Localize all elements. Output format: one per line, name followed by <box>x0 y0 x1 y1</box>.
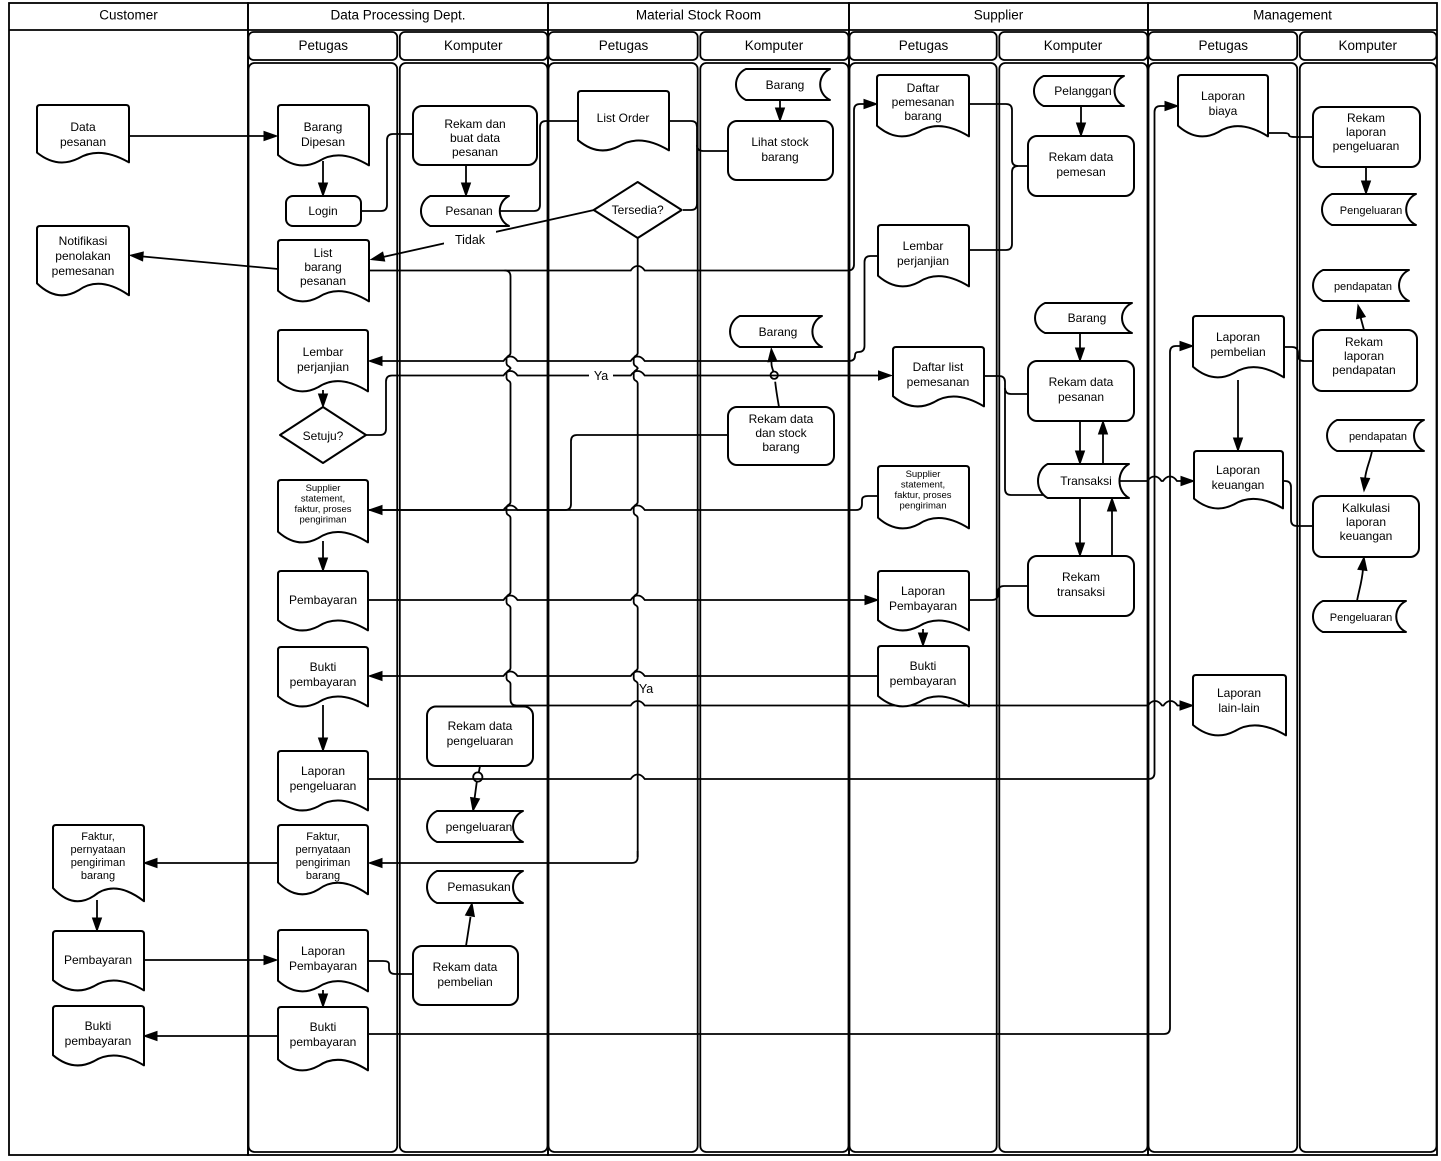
svg-text:Pembayaran: Pembayaran <box>64 953 132 967</box>
wire Data pesanan to Barang Dipesan <box>129 135 264 137</box>
document Notifikasi penolakan pemesanan <box>37 226 129 295</box>
wire Laporan pembelian to Laporan keuangan <box>1237 380 1239 439</box>
wire Supplier statement DP to Pembayaran <box>322 541 324 559</box>
wire Barang S to Rekam data pesanan <box>1079 333 1081 349</box>
svg-text:Rekam datapemesan: Rekam datapemesan <box>1049 150 1114 179</box>
document Pembayaran Customer <box>53 931 144 990</box>
document Pembayaran DP <box>278 571 368 630</box>
arrowhead into Kalkulasi top <box>1361 478 1370 491</box>
svg-text:Lembarperjanjian: Lembarperjanjian <box>297 345 349 374</box>
wire Pembayaran Customer to Laporan Pembayaran DP <box>144 959 264 961</box>
svg-text:Customer: Customer <box>99 8 158 23</box>
decision Tersedia? <box>594 182 682 238</box>
document Laporan keuangan <box>1194 451 1283 508</box>
lane Customer outer box <box>9 3 248 1155</box>
svg-text:Lembarperjanjian: Lembarperjanjian <box>897 239 949 268</box>
svg-text:Rekam datapesanan: Rekam datapesanan <box>1049 375 1114 404</box>
stored-data pendapatan1 <box>1313 270 1409 301</box>
document Faktur pernyataan pengiriman barang Customer <box>53 825 144 901</box>
arrowhead into Rekam data pemesan <box>1077 123 1086 136</box>
arrowhead into Bukti Customer <box>144 1032 157 1041</box>
document List barang pesanan <box>278 240 369 301</box>
document Lembar perjanjian DP <box>278 330 368 391</box>
document Laporan Pembayaran DP <box>278 930 368 991</box>
svg-text:Pengeluaran: Pengeluaran <box>1340 205 1402 217</box>
process Login <box>286 196 361 226</box>
svg-text:Rekam datapengeluaran: Rekam datapengeluaran <box>447 719 514 748</box>
document List Order <box>578 91 669 150</box>
document Laporan pembelian <box>1193 316 1284 377</box>
svg-text:Pemasukan: Pemasukan <box>447 880 510 894</box>
label Ya (Setuju wire) <box>589 367 613 383</box>
svg-text:Transaksi: Transaksi <box>1060 474 1112 488</box>
document Supplier statement faktur proses pengiriman DP <box>278 480 368 542</box>
stored-data Pengeluaran1 <box>1322 194 1416 225</box>
svg-text:Tersedia?: Tersedia? <box>612 203 664 217</box>
wire Rekam data pesanan to Transaksi <box>1079 421 1081 452</box>
wire Lembar perjanjian S to Rekam data pemesan <box>969 166 1018 250</box>
sublane Material Stock Room/Petugas body box <box>549 63 698 1152</box>
svg-text:Rekam danbuat datapesanan: Rekam danbuat datapesanan <box>444 117 505 159</box>
wire Laporan Pembayaran DP to Bukti <box>322 990 324 996</box>
svg-text:pengeluaran: pengeluaran <box>446 820 513 834</box>
sublane Material Stock Room/Petugas header box <box>549 32 698 60</box>
process Rekam transaksi <box>1028 556 1134 616</box>
wire Laporan pembelian to Rekam laporan pendapatan <box>1284 347 1313 361</box>
sublane Supplier/Komputer header box <box>999 32 1147 60</box>
svg-text:Petugas: Petugas <box>1198 38 1248 53</box>
stored-data Barang MSR top <box>736 69 830 100</box>
stored-data Pesanan <box>421 196 509 226</box>
process Rekam data pesanan <box>1028 361 1134 421</box>
arrowhead into Laporan lain-lain <box>1180 701 1193 710</box>
arrowhead into Daftar pemesanan barang <box>864 100 877 109</box>
process Rekam data pembelian <box>413 946 518 1005</box>
sublane Supplier/Petugas body box <box>850 63 997 1152</box>
lane Data Processing Dept. outer box <box>248 3 548 1155</box>
wire Setuju Ya <box>366 371 879 435</box>
svg-text:Pengeluaran: Pengeluaran <box>1330 612 1392 624</box>
wire Rekam data dan stock barang to Barang <box>771 353 779 408</box>
lane Material Stock Room outer box <box>548 3 849 1155</box>
document Daftar list pemesanan <box>893 347 984 406</box>
wire Tersedia Tidak diagonal <box>383 210 594 257</box>
wire Supplier statement horizontal <box>381 506 856 511</box>
svg-text:Rekam datapembelian: Rekam datapembelian <box>433 960 498 989</box>
wire Tersedia vertical to Faktur DP <box>381 851 638 863</box>
wire branch to Rekam data pesanan <box>1005 388 1028 394</box>
document Bukti pembayaran DP <box>278 647 368 706</box>
sublane Management/Komputer body box <box>1300 63 1437 1152</box>
sublane Management/Komputer header box <box>1300 32 1437 60</box>
lane Management outer box <box>1148 3 1437 1155</box>
arrowhead into Kalkulasi bottom <box>1358 557 1367 571</box>
arrowhead into Notifikasi <box>130 252 143 261</box>
svg-text:Petugas: Petugas <box>599 38 649 53</box>
arrowhead into Rekam transaksi <box>1076 543 1085 556</box>
arrowhead into Pesanan <box>462 183 471 196</box>
svg-text:Laporanpembelian: Laporanpembelian <box>1210 330 1265 359</box>
wire Transaksi to Rekam transaksi <box>1079 498 1081 544</box>
crossing loop on wire to Barang <box>771 372 778 379</box>
wire branch corner to horizontal <box>511 691 517 706</box>
wire pendapatan2 to Kalkulasi <box>1365 451 1372 479</box>
arrowhead into Daftar list pemesanan <box>879 371 892 380</box>
process Rekam laporan pendapatan <box>1313 330 1417 391</box>
arrowhead into Laporan Pembayaran DP <box>264 956 277 965</box>
wire Laporan biaya to Rekam laporan pengeluaran <box>1268 132 1314 138</box>
svg-text:Barang: Barang <box>1068 311 1107 325</box>
wire Rekam laporan pendapatan to pendapatan <box>1361 317 1365 330</box>
stored-data pengeluaran <box>427 811 523 842</box>
arrowhead into Pembayaran DP <box>319 558 328 571</box>
arrowhead into Laporan biaya <box>1165 102 1178 111</box>
arrowhead into Lihat stock barang <box>776 108 785 121</box>
wire Lembar perjanjian DP to Setuju <box>322 390 324 395</box>
sublane Data Processing Dept./Komputer header box <box>400 32 548 60</box>
process Lihat stock barang <box>728 121 833 180</box>
decision Setuju? <box>280 407 366 463</box>
wire Supplier statement S to DP <box>856 496 878 510</box>
wire branch into Lihat stock barang <box>697 145 728 151</box>
arrowhead into Barang Dipesan <box>264 132 277 141</box>
arrowhead into Login <box>319 183 328 196</box>
wire Barang MSR to Lihat stock barang <box>779 100 781 109</box>
wire Transaksi to Laporan keuangan <box>1118 477 1181 482</box>
arrowhead into Bukti pembayaran DP <box>369 672 382 681</box>
wire horizontal to Laporan lain-lain <box>517 701 1182 706</box>
arrowhead into List barang pesanan <box>371 252 385 261</box>
process Rekam dan buat data pesanan <box>413 106 537 165</box>
document Supplier statement faktur proses pengiriman S <box>878 466 969 528</box>
document Faktur pernyataan pengiriman barang DP <box>278 825 368 894</box>
wire Faktur Customer to Pembayaran <box>96 900 98 919</box>
stored-data Transaksi <box>1038 464 1129 498</box>
arrowhead into pengeluaran <box>471 798 480 812</box>
wire Rekam dan buat data pesanan to Pesanan <box>465 165 467 184</box>
svg-text:Data Processing Dept.: Data Processing Dept. <box>330 8 465 23</box>
svg-text:Pelanggan: Pelanggan <box>1054 84 1111 98</box>
wire Bukti pembayaran DP to Laporan pengeluaran <box>322 705 324 739</box>
wire Laporan keuangan to Kalkulasi <box>1283 481 1313 526</box>
svg-text:Barang: Barang <box>759 325 798 339</box>
document Laporan Pembayaran S <box>878 571 969 630</box>
svg-text:Ya: Ya <box>594 369 608 383</box>
wire Lembar perjanjian horizontal <box>381 357 849 362</box>
document Daftar pemesanan barang <box>877 75 969 136</box>
process Rekam data dan stock barang <box>728 407 834 465</box>
arrowhead into Transaksi <box>1076 451 1085 464</box>
document Data pesanan <box>37 105 129 162</box>
arrowhead into Laporan pengeluaran <box>319 738 328 751</box>
svg-text:Petugas: Petugas <box>899 38 949 53</box>
svg-text:pendapatan: pendapatan <box>1334 281 1392 293</box>
stored-data Barang MSR mid <box>730 316 822 347</box>
wire Pesanan to List Order <box>500 121 578 211</box>
stored-data Pemasukan <box>427 871 523 903</box>
svg-text:Rekamtransaksi: Rekamtransaksi <box>1057 570 1105 599</box>
wire Bukti pembayaran S to DP <box>381 672 878 677</box>
wire Daftar pemesanan to Rekam data pemesan <box>969 104 1028 166</box>
svg-text:Daftar listpemesanan: Daftar listpemesanan <box>907 360 970 389</box>
svg-text:Pesanan: Pesanan <box>445 204 492 218</box>
arrowhead into Setuju <box>319 394 328 407</box>
wire List barang pesanan to Daftar pemesanan barang <box>369 104 865 271</box>
svg-text:BarangDipesan: BarangDipesan <box>301 120 345 149</box>
document Laporan pengeluaran <box>278 751 368 810</box>
svg-text:Material Stock Room: Material Stock Room <box>636 8 761 23</box>
svg-text:Komputer: Komputer <box>745 38 804 53</box>
arrowhead into Pemasukan <box>466 903 475 917</box>
wire Lembar perjanjian S to corner <box>849 256 878 361</box>
wire Laporan pengeluaran to corner <box>369 773 1155 779</box>
stored-data pendapatan2 <box>1327 420 1424 451</box>
arrowhead into Faktur Customer <box>144 859 157 868</box>
wire branch down from List barang pesanan <box>505 271 511 692</box>
wire vertical up to Laporan biaya <box>1155 106 1166 773</box>
sublane Data Processing Dept./Komputer body box <box>400 63 548 1152</box>
wire Barang Dipesan to Login <box>322 161 324 184</box>
document Bukti pembayaran Customer <box>53 1006 144 1065</box>
wire Bukti pembayaran DP bottom to corner <box>368 346 1180 1034</box>
svg-text:Barang: Barang <box>766 78 805 92</box>
arrowhead into Bukti pembayaran S <box>919 633 928 646</box>
arrowhead into Rekam data pesanan <box>1076 348 1085 361</box>
wire Laporan Pembayaran DP to Rekam data pembelian <box>368 961 413 974</box>
document Laporan lain-lain <box>1193 675 1286 735</box>
sublane Material Stock Room/Komputer header box <box>700 32 848 60</box>
process Rekam laporan pengeluaran <box>1313 107 1420 167</box>
wire Transaksi to Rekam data pesanan <box>1102 433 1104 464</box>
svg-text:Laporankeuangan: Laporankeuangan <box>1212 463 1265 492</box>
wire List barang pesanan to Notifikasi <box>143 257 278 270</box>
sublane Data Processing Dept./Petugas header box <box>249 32 398 60</box>
wire Faktur DP to Customer <box>156 862 278 864</box>
wire Pembayaran DP to Laporan Pembayaran S <box>369 596 866 601</box>
sublane Data Processing Dept./Petugas body box <box>249 63 398 1152</box>
arrowhead into Lembar perjanjian DP <box>369 357 382 366</box>
wire Rekam data pembelian to Pemasukan <box>466 917 471 946</box>
arrowhead into Bukti pembayaran DP bottom <box>319 994 328 1007</box>
wire Rekam transaksi to Transaksi <box>1111 510 1113 556</box>
document Bukti pembayaran DP bottom <box>278 1007 368 1070</box>
crossing loop on wire to pengeluaran <box>473 772 482 781</box>
svg-text:Tidak: Tidak <box>455 233 486 247</box>
arrowhead into Rekam data pesanan up <box>1099 421 1108 434</box>
document Laporan biaya <box>1178 75 1268 136</box>
svg-text:Kalkulasilaporankeuangan: Kalkulasilaporankeuangan <box>1340 501 1393 543</box>
document Barang Dipesan <box>278 105 369 165</box>
process Rekam data pengeluaran <box>427 707 533 767</box>
svg-text:Pembayaran: Pembayaran <box>289 593 357 607</box>
wire Daftar list pemesanan right <box>984 376 1043 495</box>
arrowhead into Pengeluaran <box>1362 181 1371 194</box>
arrowhead into Laporan keuangan <box>1181 477 1194 486</box>
sublane Management/Petugas header box <box>1149 32 1298 60</box>
svg-text:Laporanlain-lain: Laporanlain-lain <box>1217 686 1261 715</box>
arrowhead into Transaksi up <box>1108 498 1117 511</box>
arrowhead into Pembayaran Customer <box>93 918 102 931</box>
svg-text:Ya: Ya <box>639 682 653 696</box>
lane Supplier outer box <box>849 3 1148 1155</box>
stored-data Pelanggan <box>1034 76 1124 106</box>
arrowhead into Supplier statement DP <box>369 506 382 515</box>
wire Rekam laporan pengeluaran to Pengeluaran <box>1365 167 1367 182</box>
svg-text:Petugas: Petugas <box>298 38 348 53</box>
document Lembar perjanjian S <box>878 225 969 286</box>
wire Laporan Pembayaran S to Rekam transaksi <box>969 586 1028 600</box>
svg-text:Notifikasipenolakanpemesanan: Notifikasipenolakanpemesanan <box>52 234 115 278</box>
wire Rekam data pengeluaran to pengeluaran <box>475 766 481 799</box>
svg-text:Komputer: Komputer <box>1044 38 1103 53</box>
arrowhead into Faktur DP <box>369 859 382 868</box>
sublane Management/Petugas body box <box>1149 63 1298 1152</box>
wire Pelanggan to Rekam data pemesan <box>1080 106 1082 124</box>
process Kalkulasi laporan keuangan <box>1313 496 1419 557</box>
sublane Material Stock Room/Komputer body box <box>700 63 848 1152</box>
wire Tersedia Ya vertical <box>634 238 638 857</box>
svg-text:Supplier: Supplier <box>974 8 1024 23</box>
svg-text:Komputer: Komputer <box>1338 38 1397 53</box>
process Rekam data pemesan <box>1028 136 1134 196</box>
arrowhead into pendapatan <box>1357 305 1366 319</box>
wire Login to Rekam dan buat data pesanan <box>361 134 413 211</box>
sublane Supplier/Petugas header box <box>850 32 997 60</box>
svg-text:List Order: List Order <box>597 111 650 125</box>
svg-text:Management: Management <box>1253 8 1332 23</box>
document Bukti pembayaran S <box>878 646 969 706</box>
wire Pengeluaran2 to Kalkulasi <box>1357 569 1363 601</box>
wire List Order to Lihat stock barang / Tersedia <box>669 121 697 210</box>
arrowhead into Laporan keuangan top <box>1234 438 1243 451</box>
arrowhead into Barang MSR mid <box>768 349 777 362</box>
svg-text:Komputer: Komputer <box>444 38 503 53</box>
arrowhead into Laporan Pembayaran S <box>865 596 878 605</box>
svg-text:Login: Login <box>308 204 337 218</box>
wire Rekam data dan stock barang left <box>369 435 728 510</box>
label Tidak <box>444 229 496 250</box>
sublane Supplier/Komputer body box <box>999 63 1147 1152</box>
wire Laporan Pembayaran S to Bukti S <box>922 629 924 634</box>
stored-data Pengeluaran2 <box>1313 601 1406 632</box>
svg-text:pendapatan: pendapatan <box>1349 431 1407 443</box>
wire Bukti DP to Customer <box>156 1035 278 1037</box>
svg-text:Setuju?: Setuju? <box>303 429 344 443</box>
arrowhead into Laporan pembelian <box>1180 342 1193 351</box>
stored-data Barang S <box>1035 303 1132 333</box>
